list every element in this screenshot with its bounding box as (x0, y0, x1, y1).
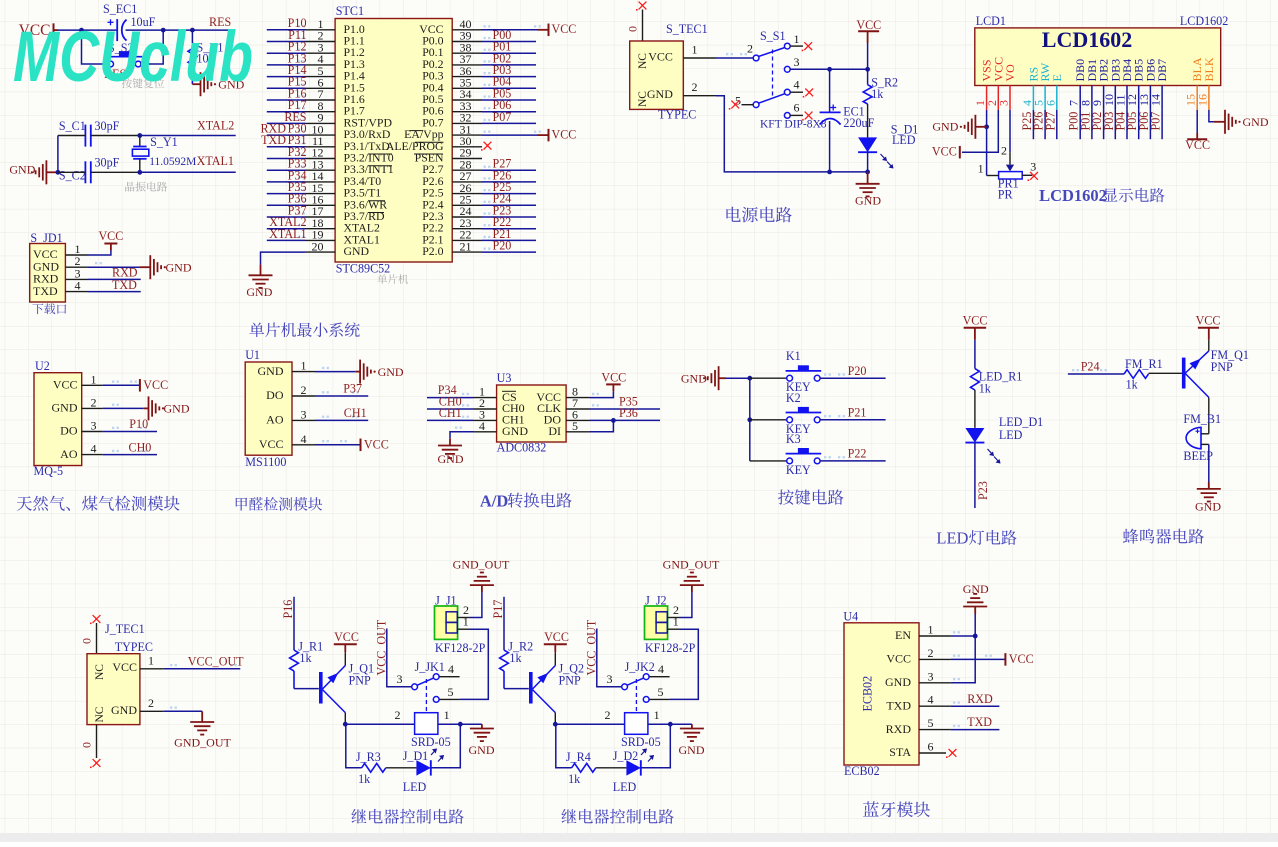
svg-text:S_Y1: S_Y1 (150, 135, 178, 149)
wire trunk (951, 614, 975, 683)
wire vcc_out (597, 629, 622, 687)
wire right K1 (820, 377, 885, 379)
wire pin11 (267, 146, 305, 148)
svg-text:U1: U1 (245, 348, 260, 362)
junction (458, 722, 463, 727)
pin 1 stub (986, 86, 988, 110)
mark (484, 248, 491, 250)
svg-text:ADC0832: ADC0832 (497, 440, 547, 454)
wire pin14 (267, 181, 305, 183)
svg-text:J_R3: J_R3 (356, 750, 381, 764)
pin 32 stub (452, 122, 482, 124)
svg-text:16: 16 (1195, 94, 1209, 106)
wire base (504, 688, 529, 690)
svg-text:GND: GND (258, 364, 284, 378)
wire P03 (1114, 110, 1116, 139)
svg-text:S_TEC1: S_TEC1 (666, 22, 708, 36)
svg-text:1: 1 (91, 372, 97, 386)
power bar VCC (544, 643, 567, 645)
switch dashed link (425, 679, 427, 712)
wire led to res (596, 767, 627, 769)
wire pin1 (951, 635, 975, 637)
svg-text:VCC: VCC (259, 437, 284, 451)
wire pin6 (267, 87, 305, 89)
svg-text:J_JK2: J_JK2 (625, 660, 655, 674)
svg-text:TXD: TXD (261, 133, 286, 147)
junction (137, 170, 142, 175)
wire base (1149, 372, 1182, 374)
transistor collector (323, 690, 346, 713)
svg-text:1k: 1k (871, 87, 884, 101)
power stem (344, 644, 346, 652)
no connect X (805, 89, 813, 97)
svg-text:1: 1 (928, 623, 934, 637)
svg-text:1k: 1k (299, 651, 312, 665)
relay switch J_JK2 (622, 684, 628, 690)
svg-text:PNP: PNP (1211, 360, 1233, 374)
svg-text:3: 3 (607, 672, 613, 686)
ground (149, 255, 151, 279)
svg-text:LED: LED (403, 780, 427, 794)
wire CH0 (103, 454, 157, 456)
pin 6 stub (919, 752, 946, 754)
svg-text:3: 3 (794, 55, 800, 69)
svg-text:VCC: VCC (552, 22, 577, 36)
svg-text:LCD1602: LCD1602 (1039, 186, 1107, 205)
svg-text:STA: STA (889, 745, 911, 759)
svg-text:DB7: DB7 (1155, 59, 1169, 82)
resistor J_R4 (572, 763, 596, 772)
svg-text:VCC: VCC (1185, 138, 1210, 152)
svg-text:1: 1 (692, 43, 698, 57)
wire base (294, 688, 319, 690)
mark (352, 416, 359, 418)
svg-text:2: 2 (605, 708, 611, 722)
pin 1 stub (790, 45, 803, 47)
mark (298, 119, 305, 121)
svg-text:3: 3 (1030, 160, 1036, 174)
wire res left (556, 724, 572, 768)
mark (462, 393, 469, 395)
svg-text:14: 14 (1149, 94, 1163, 106)
transistor emitter (533, 666, 556, 690)
pin 1 stub (474, 397, 497, 399)
svg-text:5: 5 (658, 685, 664, 699)
svg-text:J_TEC1: J_TEC1 (105, 622, 145, 636)
module U4 body (844, 623, 919, 765)
wire P01 (1091, 110, 1093, 139)
comment 单片机 (377, 274, 408, 284)
svg-text:GND_OUT: GND_OUT (174, 735, 231, 749)
wire left K2 (750, 419, 787, 421)
ground lead (1214, 121, 1225, 123)
no connect X (639, 2, 647, 10)
pin 4 stub (439, 676, 460, 678)
mark (170, 664, 177, 666)
ground GND (963, 606, 987, 608)
power bar VCC (1187, 138, 1207, 140)
mark (534, 131, 541, 133)
svg-text:1: 1 (444, 708, 450, 722)
mark (953, 655, 960, 657)
mark (298, 37, 305, 39)
junction (973, 634, 978, 639)
pin 4 stub (1032, 86, 1034, 110)
wire pin25 (482, 204, 536, 206)
wire pin2 gnd (680, 592, 692, 618)
mark (112, 404, 119, 406)
pin 37 stub (452, 64, 482, 66)
power bar VCC (858, 30, 879, 32)
svg-text:TXD: TXD (112, 278, 137, 292)
svg-text:4: 4 (794, 78, 800, 92)
wire emitter up (554, 652, 556, 665)
pin 16 stub (305, 204, 335, 206)
svg-text:CH1: CH1 (439, 406, 462, 420)
no connect X (949, 749, 957, 757)
svg-text:220uF: 220uF (843, 116, 874, 130)
ground stem (691, 724, 693, 728)
svg-text:21: 21 (460, 239, 472, 253)
svg-text:U2: U2 (35, 359, 50, 373)
svg-text:GND: GND (111, 703, 137, 717)
mark (462, 416, 469, 418)
svg-text:GND: GND (502, 424, 528, 438)
junction (865, 170, 870, 175)
pin 7 stub (566, 408, 590, 410)
transistor J_Q1 base bar (319, 672, 323, 704)
pin 3 stub (65, 278, 87, 280)
svg-text:E: E (1050, 74, 1064, 81)
pin 26 stub (452, 193, 482, 195)
ground stem (867, 172, 869, 184)
svg-text:VCC: VCC (98, 229, 123, 243)
wire pin22 (482, 239, 536, 241)
wire pin1 to pot (987, 175, 999, 177)
pin 2 stub (997, 86, 999, 110)
overline INT0 (368, 153, 392, 155)
pin 9 stub (305, 122, 335, 124)
button K2 (787, 417, 793, 423)
svg-text:P22: P22 (848, 447, 867, 461)
pin 8 stub (305, 111, 335, 113)
svg-text:2: 2 (692, 80, 698, 94)
pin 2 stub (668, 617, 680, 619)
mark (484, 224, 491, 226)
mark (140, 427, 147, 429)
wire pin16 (267, 204, 305, 206)
svg-text:30pF: 30pF (95, 155, 120, 169)
mark (298, 142, 305, 144)
svg-text:4: 4 (448, 662, 454, 676)
power bar (959, 146, 961, 159)
section label 继电器控制电路 (561, 809, 674, 824)
mark (740, 53, 747, 55)
ground (359, 360, 361, 384)
wire pin38 (482, 52, 536, 54)
pin 28 stub (452, 169, 482, 171)
svg-text:0: 0 (80, 742, 94, 748)
mark (322, 367, 329, 369)
svg-text:GND: GND (469, 743, 495, 757)
wire left K1 (750, 377, 787, 379)
wire collector down (344, 713, 346, 725)
power bar (53, 23, 55, 36)
svg-text:FM_R1: FM_R1 (1125, 357, 1163, 371)
pin 6 stub (790, 114, 803, 116)
junction (343, 722, 348, 727)
module U1 body (245, 362, 292, 455)
svg-text:CH0: CH0 (129, 440, 152, 454)
wire pin1 to VCC (88, 251, 111, 256)
svg-text:2: 2 (148, 696, 154, 710)
pin 38 stub (452, 52, 482, 54)
wire pin3 (1009, 110, 1011, 152)
mark (953, 701, 960, 703)
switch blade 2-1 (759, 48, 785, 57)
mark (230, 664, 237, 666)
wire DI loop (590, 420, 613, 431)
wire P25 (1032, 110, 1034, 139)
wire pin16 (1209, 110, 1214, 122)
svg-text:RXD: RXD (886, 722, 912, 736)
svg-text:VCC_OUT: VCC_OUT (188, 654, 244, 668)
mark (484, 37, 491, 39)
emitter arrow (327, 673, 338, 683)
mark (1100, 369, 1107, 371)
wire coil left (345, 723, 414, 725)
wire XTAL1 (140, 171, 236, 173)
wire to gnd (460, 723, 482, 725)
pin 6 stub (566, 419, 590, 421)
mark (322, 391, 329, 393)
ground lead (355, 371, 360, 373)
pin 6 stub (1056, 86, 1058, 110)
power stem (974, 328, 976, 340)
mark (953, 631, 960, 633)
svg-text:DO: DO (266, 388, 284, 402)
pin 1 stub (458, 628, 470, 630)
svg-text:GND: GND (1243, 115, 1269, 129)
svg-text:J_JK1: J_JK1 (415, 660, 445, 674)
svg-text:AO: AO (60, 447, 78, 461)
pin 5 stub (649, 698, 670, 700)
ground lead (975, 126, 986, 128)
ground (974, 115, 976, 139)
connector J_J2 body (645, 606, 668, 639)
svg-text:SRD-05: SRD-05 (621, 735, 661, 749)
wire collector down (554, 713, 556, 725)
pin 14 stub (1161, 86, 1163, 110)
svg-text:6: 6 (928, 740, 934, 754)
svg-text:SRD-05: SRD-05 (411, 735, 451, 749)
section label 继电器控制电路 (351, 809, 464, 824)
wire pin4 GND (450, 432, 474, 439)
svg-text:S_C2: S_C2 (59, 169, 86, 183)
wire CH1 (427, 419, 474, 421)
pin 1 stub (305, 29, 335, 31)
wire pin39 (482, 41, 536, 43)
pin 35 stub (452, 87, 482, 89)
svg-text:VCC: VCC (886, 652, 911, 666)
ground lead (46, 171, 58, 173)
svg-text:GND: GND (164, 402, 190, 416)
svg-text:4: 4 (658, 662, 664, 676)
svg-text:VCC: VCC (334, 630, 359, 644)
svg-text:VCC: VCC (112, 660, 137, 674)
svg-text:P24: P24 (1081, 359, 1100, 373)
IC STC1 body (335, 19, 452, 263)
pin 24 stub (452, 216, 482, 218)
wire emitter up (1208, 340, 1210, 351)
section label 蜂鸣器电路 (1123, 529, 1204, 544)
wire CH1 (315, 419, 368, 421)
svg-text:LCD1: LCD1 (976, 14, 1006, 28)
pin 5 stub (742, 104, 754, 106)
power stem (612, 384, 614, 391)
ground (718, 366, 720, 390)
wire (58, 171, 86, 173)
pin 27 stub (452, 181, 482, 183)
wire pin21 (482, 251, 536, 253)
junction (747, 417, 752, 422)
wire pin23 (482, 228, 536, 230)
LED arrows (881, 154, 887, 161)
pin 13 stub (305, 169, 335, 171)
wire to gnd (1208, 444, 1210, 482)
svg-text:0: 0 (626, 26, 640, 32)
svg-text:GND: GND (9, 163, 35, 177)
svg-text:J_D2: J_D2 (613, 749, 639, 763)
svg-text:VCC: VCC (856, 18, 881, 32)
pin 4 stub (790, 91, 803, 93)
pin 39 stub (452, 41, 482, 43)
ground stem (1208, 482, 1210, 489)
svg-text:TXD: TXD (967, 715, 992, 729)
pin 4 stub (82, 454, 103, 456)
svg-text:3: 3 (928, 669, 934, 683)
wire RES (192, 29, 235, 31)
mark (484, 131, 491, 133)
ground stem (481, 724, 483, 728)
pin 11 stub (1126, 86, 1128, 110)
pin 30 stub (452, 146, 482, 148)
mark (112, 427, 119, 429)
svg-text:P21: P21 (848, 405, 867, 419)
connector J_TEC1 body (87, 654, 140, 725)
svg-text:VCC: VCC (1196, 314, 1221, 328)
ground stem (974, 607, 976, 615)
wire pin4 VCC (315, 444, 361, 446)
svg-text:P20: P20 (848, 364, 867, 378)
pin 1 stub (65, 254, 87, 256)
LED J_D2 (626, 760, 640, 775)
wire (974, 443, 976, 508)
svg-text:U3: U3 (497, 371, 512, 385)
wire pin2 GND (103, 407, 144, 409)
svg-text:3: 3 (301, 407, 307, 421)
coil arrows (641, 749, 647, 755)
power stem (554, 644, 556, 652)
junction (190, 28, 195, 33)
ground GND (470, 728, 494, 730)
svg-text:1: 1 (148, 653, 154, 667)
pin 12 stub (305, 158, 335, 160)
svg-text:1: 1 (978, 162, 984, 176)
wire pin4 (267, 64, 305, 66)
mark (298, 177, 305, 179)
comment 晶振电路 (125, 182, 167, 192)
mark (95, 262, 102, 264)
wire XTAL2 (140, 135, 236, 137)
wire cap to xtal (91, 135, 140, 137)
junction (668, 722, 673, 727)
wire pin15 (267, 193, 305, 195)
wire 3 to vcc (790, 68, 867, 70)
svg-text:XTAL1: XTAL1 (197, 154, 234, 168)
wire pin1 (267, 29, 305, 31)
svg-text:VCC: VCC (53, 378, 78, 392)
module U2 body (34, 373, 82, 466)
wire trunk (749, 378, 751, 461)
svg-text:TXD: TXD (33, 284, 58, 298)
svg-text:NC: NC (637, 53, 649, 69)
pin 4 stub (649, 676, 670, 678)
mark (298, 236, 305, 238)
wire led branch (431, 724, 460, 768)
svg-text:GND: GND (647, 87, 673, 101)
power lead (538, 134, 549, 136)
svg-text:6: 6 (794, 101, 800, 115)
wire pin1 loop (670, 629, 699, 699)
wire pin12 (267, 158, 305, 160)
svg-text:30pF: 30pF (95, 119, 120, 133)
svg-text:1k: 1k (509, 651, 522, 665)
LED arrows (988, 449, 994, 456)
mark (340, 440, 347, 442)
pin 7 stub (1079, 86, 1081, 110)
svg-text:GND: GND (932, 120, 958, 134)
pin 4 stub (305, 64, 335, 66)
svg-text:2: 2 (91, 395, 97, 409)
power port VCC (360, 439, 362, 452)
svg-text:A/D: A/D (480, 491, 509, 510)
pin 3 stub (919, 682, 951, 684)
ground (45, 160, 47, 184)
pin 16 stub (1208, 86, 1210, 110)
pin 12 stub (1138, 86, 1140, 110)
pin 11 stub (305, 146, 335, 148)
wire CH0 (427, 408, 474, 410)
wire P00 (1079, 110, 1081, 139)
power bar VCC (606, 383, 621, 385)
wire coil left (555, 723, 624, 725)
pin 22 stub (452, 239, 482, 241)
section label 按键电路 (778, 489, 843, 504)
mark (322, 440, 329, 442)
wire pin1 loop (460, 629, 489, 699)
svg-text:2: 2 (395, 708, 401, 722)
coil arrows (431, 749, 437, 755)
wire pin10 (267, 134, 305, 136)
wire RXD (951, 705, 1000, 707)
svg-text:GND: GND (855, 194, 881, 208)
mark (455, 427, 462, 429)
mark (298, 49, 305, 51)
svg-text:STC1: STC1 (336, 4, 364, 18)
ground GND_OUT (470, 584, 494, 586)
svg-text:LED: LED (936, 529, 968, 548)
